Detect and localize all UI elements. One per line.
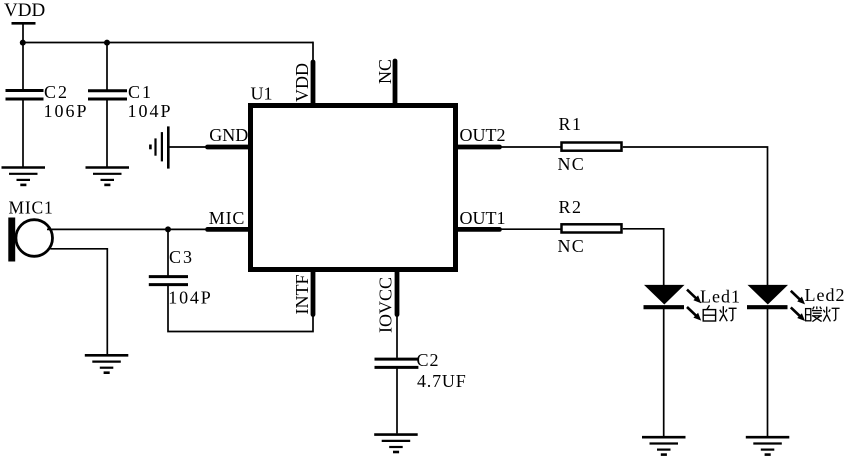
svg-text:IOVCC: IOVCC [376,277,396,333]
svg-text:Led2: Led2 [805,285,846,305]
wire VDD rail drop to U1 VDD pin [312,42,314,64]
pin OUT2 stub (right) [456,145,500,150]
pin VDD stub (top) [311,62,316,104]
wire C2 bottom lead [22,99,24,167]
capacitor C2 (4.7UF) [375,359,419,367]
svg-text:OUT1: OUT1 [460,208,506,228]
svg-text:104P: 104P [168,288,212,308]
wire C2 cap to ground [396,367,398,433]
wire GND pin to ground [168,146,208,148]
svg-text:INTF: INTF [292,275,312,315]
svg-text:GND: GND [209,125,248,145]
wire C3 bottom lead to INTF [168,285,313,332]
wire C3 top lead [167,229,169,275]
wire R2 to Led1 [623,229,664,286]
svg-text:VDD: VDD [292,63,312,102]
wire C1 top lead [106,43,108,91]
LED Led2 arrow 2 [791,307,805,321]
wire C1 bottom lead [106,99,108,167]
microphone MIC1 [8,218,52,262]
pin MIC stub (left) [208,227,251,232]
label 白灯 [703,305,736,321]
LED Led2 [747,285,788,307]
wire R1 to Led2 [623,147,768,286]
resistor R2 [562,224,622,232]
junction at VDD/C2 [20,40,26,46]
wire MIC1 to MIC pin [47,228,208,230]
LED Led1 arrow 2 [687,307,701,321]
svg-text:C2: C2 [417,350,440,370]
svg-text:NC: NC [558,236,585,256]
ground under Led1 [642,437,686,454]
svg-text:Led1: Led1 [700,286,741,306]
svg-text:R1: R1 [559,114,583,134]
wire VDD rail [22,42,313,44]
svg-text:OUT2: OUT2 [460,125,506,145]
svg-text:C1: C1 [128,82,153,102]
ground under C2 cap [374,435,418,452]
wire IOVCC to C2 cap [396,313,398,358]
svg-text:NC: NC [375,59,395,84]
svg-text:NC: NC [558,154,585,174]
pin OUT1 stub (right) [456,227,500,232]
svg-text:C3: C3 [169,247,194,267]
wire OUT1 to R2 [499,228,561,230]
pin NC stub (top) [393,61,398,104]
pin INTF stub (bottom) [311,271,316,315]
ground under C1 [86,168,130,185]
svg-text:VDD: VDD [4,0,45,21]
svg-text:106P: 106P [44,101,89,121]
capacitor C1 [88,91,127,99]
wire C2 top lead [22,43,24,91]
LED Led2 arrow 1 [791,291,805,305]
LED Led1 arrow 1 [687,290,701,304]
ground under MIC1 [85,355,129,372]
wire Led1 to ground [663,307,665,436]
capacitor C2 (left) [6,91,44,100]
svg-text:4.7UF: 4.7UF [417,371,467,391]
svg-text:MIC1: MIC1 [9,198,54,218]
signal ground at GND pin (sideways) [150,126,168,168]
ground under Led2 [746,437,790,454]
junction at VDD/C1 [104,40,110,46]
svg-text:R2: R2 [559,197,583,217]
IC U1 body [251,106,456,270]
wire OUT2 to R1 [499,146,561,148]
label 暖灯 [806,306,840,321]
svg-text:104P: 104P [128,101,173,121]
resistor R1 [562,143,622,151]
power flag VDD [4,0,45,43]
LED Led1 [644,285,685,307]
svg-text:C2: C2 [44,82,69,102]
wire Led2 to ground [767,307,769,436]
wire MIC1 lower lead [51,249,108,354]
svg-text:MIC: MIC [209,208,245,228]
ground under C2 [2,168,46,185]
pin IOVCC stub (bottom) [395,271,400,315]
svg-text:U1: U1 [251,84,273,104]
junction at MIC/C3 [165,226,171,232]
capacitor C3 [149,277,188,285]
pin GND stub (left) [208,145,251,150]
